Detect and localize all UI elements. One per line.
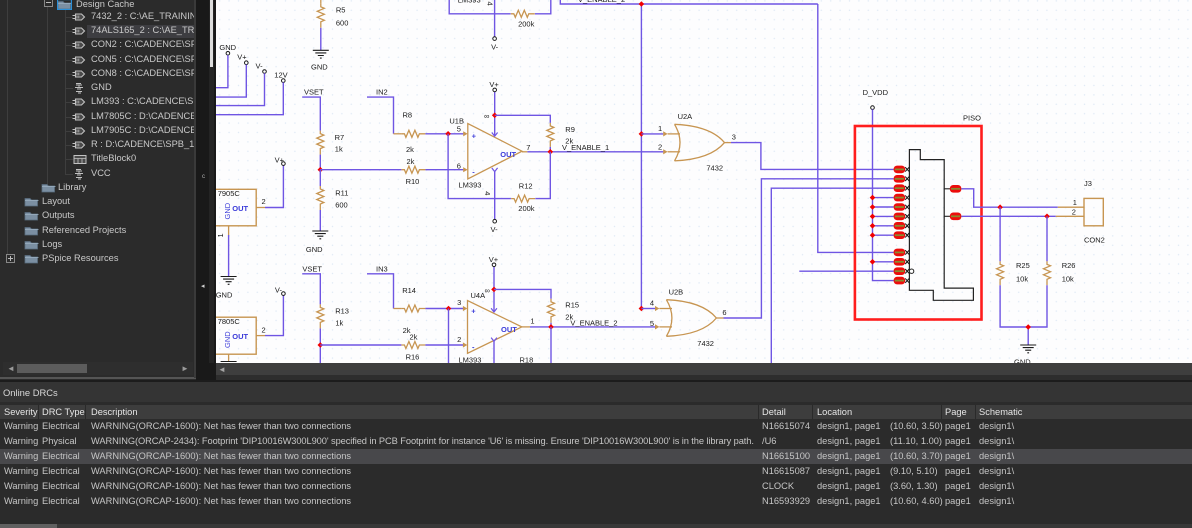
- pin pad (left, row 4): [894, 194, 910, 202]
- pin pad (left, row 6): [894, 213, 910, 221]
- svg-text:V-: V-: [256, 61, 264, 70]
- svg-text:VSET: VSET: [304, 88, 324, 97]
- junction D_VDD @y=197.6: [870, 195, 876, 201]
- wire U1A V- power pin: [494, 0, 496, 37]
- junction D_VDD @y=207.0: [870, 204, 876, 210]
- svg-text:10k: 10k: [1062, 274, 1074, 283]
- node V+ (port above U4A): [489, 255, 499, 266]
- junction ground tap: [1025, 324, 1031, 330]
- pin pad (left, row 1): [894, 166, 910, 174]
- svg-text:V+: V+: [489, 255, 499, 264]
- svg-text:∞: ∞: [485, 286, 490, 295]
- svg-text:7: 7: [526, 143, 530, 152]
- svg-text:7905C: 7905C: [218, 189, 241, 198]
- svg-text:R12: R12: [519, 182, 533, 191]
- svg-text:R16: R16: [406, 352, 420, 361]
- resistor R8 2k: [394, 111, 426, 155]
- svg-text:6: 6: [722, 308, 726, 317]
- svg-text:R8: R8: [403, 111, 413, 120]
- pin pad (right, Q2 output): [944, 213, 961, 221]
- resistor R13 1k: [317, 304, 349, 328]
- wire U1B feedback loop: [448, 134, 511, 199]
- svg-text:V+: V+: [237, 52, 247, 61]
- svg-text:VSET: VSET: [302, 264, 322, 273]
- svg-text:IN3: IN3: [376, 264, 388, 273]
- node V- (port, below U1A): [491, 37, 499, 52]
- wire D_VDD stub to pad @y=197.6: [873, 197, 894, 199]
- svg-text:R18: R18: [520, 356, 534, 364]
- node VSET (flat net label, lower): [302, 264, 322, 304]
- wire pad b3 stub: [799, 270, 893, 272]
- ground (below R5): [311, 50, 329, 71]
- svg-text:R10: R10: [406, 177, 420, 186]
- node IN2 (flat net label): [367, 88, 394, 134]
- node V- (port above 7805C): [275, 285, 285, 295]
- junction R25 tap: [997, 204, 1003, 210]
- svg-text:1: 1: [530, 317, 534, 326]
- svg-text:7432: 7432: [706, 163, 723, 172]
- svg-text:2k: 2k: [407, 157, 415, 166]
- svg-text:V-: V-: [491, 225, 499, 234]
- wire U2B pin5 stub: [650, 319, 672, 330]
- resistor R9 2k: [547, 123, 575, 147]
- pin pad (left, row 2): [894, 175, 910, 183]
- svg-text:U2A: U2A: [678, 112, 693, 121]
- wire R9 to output junction: [549, 147, 551, 152]
- junction U2A pin1: [639, 131, 645, 137]
- wire 7805C OUT to V-: [265, 295, 283, 335]
- resistor R10 2k: [401, 157, 425, 186]
- wire R16 to U4A pin2: [425, 344, 463, 346]
- pin pad (left, row 7): [894, 222, 910, 230]
- wire U2A pin3 output to PISO pad1: [725, 133, 894, 170]
- svg-text:2: 2: [262, 197, 266, 206]
- wire R10 to U1B pin6: [425, 169, 463, 171]
- title bar: [0, 382, 1192, 402]
- wire PISO Q2 to J3 pin2: [961, 215, 1055, 217]
- wire R8 to U1B pin5: [425, 133, 463, 135]
- wire D_VDD rail: [873, 109, 894, 280]
- junction U1B pin5: [445, 131, 451, 137]
- svg-text:4: 4: [650, 299, 654, 308]
- svg-text:R14: R14: [402, 286, 416, 295]
- svg-text:GND: GND: [223, 202, 232, 219]
- svg-text:GND: GND: [223, 331, 232, 348]
- svg-text:GND: GND: [1014, 358, 1031, 364]
- svg-text:GND: GND: [216, 291, 233, 300]
- svg-text:R11: R11: [335, 189, 348, 198]
- svg-text:GND: GND: [219, 43, 236, 52]
- bottom horizontal scrollbar: [0, 524, 1192, 528]
- svg-text:2: 2: [658, 143, 662, 152]
- junction R13: [318, 342, 324, 348]
- svg-text:CON2: CON2: [1084, 236, 1105, 245]
- svg-text:LM393: LM393: [459, 181, 482, 190]
- node V- (port below U1B): [491, 219, 499, 234]
- resistor R5 600: [317, 0, 348, 28]
- svg-text:2k: 2k: [410, 332, 418, 341]
- ground (below R25/R26): [1014, 345, 1036, 367]
- svg-text:R13: R13: [335, 307, 349, 316]
- wire pin8 node to R9: [495, 115, 551, 123]
- resistor R26 10k: [1044, 216, 1076, 285]
- junction U2B pin4: [639, 306, 645, 312]
- svg-text:J3: J3: [1084, 179, 1092, 188]
- svg-text:12V: 12V: [274, 70, 287, 79]
- wire 7905C OUT to V+: [265, 165, 283, 207]
- svg-text:5: 5: [650, 319, 654, 328]
- node GND (port): [216, 43, 237, 88]
- svg-text:IN2: IN2: [376, 88, 388, 97]
- junction U4A pin3: [446, 306, 452, 312]
- wire U2A pin2 stub: [658, 143, 680, 155]
- wire R11 to ground: [319, 210, 321, 231]
- op-amp U1B LM393: [449, 112, 530, 196]
- svg-text:+: +: [472, 132, 477, 141]
- junction D_VDD @y=235.2: [870, 232, 876, 238]
- svg-text:OUT: OUT: [500, 150, 516, 159]
- svg-text:1: 1: [658, 124, 662, 133]
- pin pad (left, row 12): [894, 277, 910, 285]
- wire D_VDD stub to pad @y=235.2: [873, 234, 894, 236]
- svg-text:GND: GND: [306, 245, 323, 254]
- resistor R25 10k: [997, 207, 1030, 285]
- wire bus drop to gates: [640, 4, 642, 309]
- pin pad (left, row 8): [894, 231, 910, 239]
- wire R13 junction to R16: [320, 344, 401, 346]
- op-amp U4A LM393: [457, 286, 534, 365]
- tree panel horizontal scrollbar: [3, 362, 193, 375]
- pin pad (left, row 10): [894, 258, 910, 266]
- svg-text:R26: R26: [1062, 261, 1076, 270]
- tree guide lines: [7, 0, 8, 260]
- svg-text:R25: R25: [1016, 261, 1030, 270]
- ground (below 7905C): [216, 277, 237, 300]
- junction U4A out: [548, 324, 554, 330]
- junction U4A pin8: [491, 287, 497, 293]
- svg-text:2: 2: [457, 335, 461, 344]
- gate U2B 7432: [666, 288, 716, 348]
- op-amp U1A LM393 (clipped at top edge): [458, 0, 495, 6]
- wire D_VDD stub to pad @y=216.4: [873, 215, 894, 217]
- svg-text:R7: R7: [335, 133, 345, 142]
- resistor R12 200k: [511, 182, 535, 213]
- resistor R11 600: [317, 170, 349, 210]
- wire PISO Q to J3 pin1: [961, 189, 1057, 207]
- selection box PISO: [855, 114, 982, 320]
- wire top bus to U2A.1 / U2B.4 / PISO: [560, 0, 818, 4]
- wire 7905C pin1 to ground: [228, 235, 230, 277]
- ground (below 7805C, clipped): [221, 362, 237, 370]
- pin pad (left, row 9): [894, 249, 910, 257]
- svg-text:7805C: 7805C: [218, 317, 241, 326]
- wire U1B V+ power (pin 8): [492, 92, 498, 137]
- wire U2B pin6 output to PISO pad2: [716, 179, 893, 318]
- wire U1B output pin7: [522, 151, 527, 153]
- regulator U? 7905C: [213, 189, 266, 237]
- svg-text:+: +: [471, 307, 476, 316]
- svg-text:LM393: LM393: [458, 0, 481, 5]
- svg-text:10k: 10k: [1016, 274, 1028, 283]
- svg-text:U4A: U4A: [471, 291, 486, 300]
- svg-text:R15: R15: [565, 301, 579, 310]
- junction U1B out: [548, 149, 554, 155]
- node V- (port): [216, 61, 266, 105]
- junction bus top: [639, 1, 645, 7]
- wire D_VDD stub to pad @y=261.8: [873, 261, 894, 263]
- svg-text:1: 1: [1073, 198, 1077, 207]
- svg-text:GND: GND: [311, 63, 328, 72]
- junction D_VDD @y=261.8: [870, 259, 876, 265]
- svg-text:2: 2: [262, 326, 266, 335]
- svg-text:600: 600: [335, 201, 348, 210]
- svg-text:5: 5: [457, 124, 461, 133]
- svg-text:V-: V-: [491, 43, 499, 52]
- resistor R16 2k: [401, 332, 425, 361]
- wire U1B pin6 from R7/R11 junction: [320, 169, 401, 171]
- svg-text:6: 6: [457, 161, 461, 170]
- node 12V (port): [216, 70, 288, 114]
- resistor R6 200k (U1A feedback): [449, 0, 551, 29]
- IC U6 body outline: [909, 150, 973, 301]
- svg-text:1k: 1k: [335, 318, 343, 327]
- wire U1B V- power (pin 4): [492, 168, 498, 219]
- pin pad (left, row 3): [894, 184, 910, 192]
- svg-text:∞: ∞: [484, 112, 489, 121]
- wire top bus to PISO pad b1: [818, 4, 894, 252]
- node VSET (flat net label, upper): [302, 88, 324, 131]
- wire U4A output pin1: [522, 326, 655, 328]
- svg-text:U2B: U2B: [669, 288, 684, 297]
- node D_VDD (port): [863, 88, 889, 109]
- svg-text:4: 4: [486, 2, 495, 6]
- svg-text:R9: R9: [565, 125, 575, 134]
- node V+ (port above 7905C): [275, 155, 286, 165]
- junction R7/R11/R10: [318, 167, 324, 173]
- wire R14 to U4A pin3: [425, 308, 463, 310]
- wire R12 to output node: [535, 152, 550, 199]
- svg-text:OUT: OUT: [232, 332, 248, 341]
- resistor R14 2k: [394, 286, 426, 335]
- svg-text:3: 3: [732, 133, 736, 142]
- wire pad3 from bottom edge: [771, 188, 893, 363]
- junction U1B pin8: [492, 113, 498, 119]
- header row: [0, 405, 1192, 420]
- wire D_VDD stub to pad @y=207.0: [873, 206, 894, 208]
- pin pad (right, Q output): [944, 185, 961, 193]
- svg-text:D_VDD: D_VDD: [863, 88, 889, 97]
- svg-text:4: 4: [483, 191, 492, 195]
- regulator U? 7805C: [213, 317, 266, 361]
- pin pad (left, row 5): [894, 203, 910, 211]
- connector J3 CON2: [1056, 179, 1105, 245]
- wire R15 to out junction: [550, 323, 552, 327]
- wire U4A feedback (R18, clipped): [448, 309, 450, 364]
- wire R13 to junction and down: [319, 328, 321, 363]
- pin pad (left, row 11): [894, 267, 914, 275]
- svg-text:2k: 2k: [406, 145, 414, 154]
- wire U4A V+ power (pin 8): [491, 267, 497, 312]
- svg-text:LM393: LM393: [459, 356, 482, 364]
- svg-text:200k: 200k: [518, 204, 535, 213]
- svg-text:2: 2: [1072, 208, 1076, 217]
- node V+ (port): [216, 52, 248, 97]
- svg-text:PISO: PISO: [963, 114, 981, 123]
- svg-text:3: 3: [457, 298, 461, 307]
- wire U4A V- power (clipped): [491, 338, 497, 363]
- tree rows container: [0, 0, 196, 378]
- svg-text:600: 600: [336, 19, 349, 28]
- junction D_VDD @y=216.4: [870, 214, 876, 220]
- wire U2B pin4 stub: [641, 299, 672, 312]
- node IN3 (flat net label): [367, 264, 394, 308]
- wire R5 to ground: [320, 28, 322, 51]
- svg-text:V+: V+: [489, 80, 499, 89]
- gate U2A 7432: [675, 112, 725, 172]
- svg-text:1k: 1k: [335, 144, 343, 153]
- wire D_VDD stub to pad @y=225.8: [873, 225, 894, 227]
- svg-text:V_ENABLE_1: V_ENABLE_1: [562, 143, 609, 152]
- wire U2A pin1 stub: [641, 124, 680, 136]
- junction D_VDD @y=225.8: [870, 223, 876, 229]
- svg-text:200k: 200k: [518, 20, 535, 29]
- svg-text:7432: 7432: [697, 339, 714, 348]
- resistor R15 2k: [548, 299, 580, 323]
- svg-text:OUT: OUT: [232, 204, 248, 213]
- svg-text:OUT: OUT: [501, 325, 517, 334]
- node V+ (port above U1B): [489, 80, 499, 92]
- wire R25/R26 to ground: [1000, 285, 1047, 327]
- svg-text:1: 1: [216, 233, 225, 237]
- junction R26 tap: [1044, 214, 1050, 220]
- ground (below R11): [306, 231, 328, 254]
- wire R7 to junction: [319, 155, 321, 170]
- wire pin8 node to R15: [494, 289, 551, 298]
- resistor R7 1k: [317, 131, 344, 155]
- svg-text:V_ENABLE_2: V_ENABLE_2: [578, 0, 625, 4]
- svg-text:R5: R5: [336, 6, 346, 15]
- svg-text:V_ENABLE_2: V_ENABLE_2: [570, 318, 617, 327]
